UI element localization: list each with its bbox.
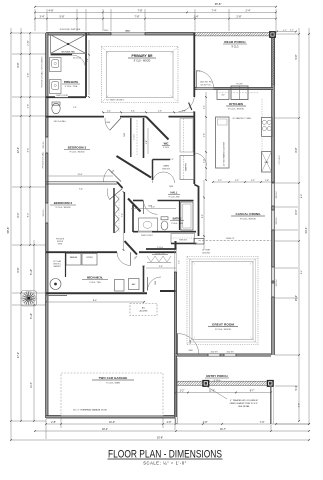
svg-text:PROVIDE 2x6 WALL: PROVIDE 2x6 WALL (42, 152, 45, 169)
diagonal wall hall west (117, 156, 152, 178)
title (108, 449, 223, 466)
bottom dimension lines (10, 417, 310, 441)
svg-text:9' CLG: 9' CLG (163, 147, 169, 149)
svg-text:2'-6": 2'-6" (158, 110, 162, 112)
svg-text:4'-8": 4'-8" (49, 9, 54, 12)
svg-text:KITCHEN: KITCHEN (229, 102, 244, 106)
svg-text:9' CLG: 9' CLG (157, 247, 163, 249)
kitchen label (226, 102, 246, 111)
svg-text:PRIMARY BR: PRIMARY BR (131, 54, 153, 58)
front door (178, 334, 200, 356)
primary br east wall + door (179, 33, 213, 112)
linen closet (153, 160, 171, 181)
svg-text:PROVIDE 2x6 WALL FOR PLUMBING: PROVIDE 2x6 WALL FOR PLUMBING (41, 56, 44, 88)
svg-text:42" HIGH RAISED COUNTER: 42" HIGH RAISED COUNTER (223, 141, 226, 166)
rear porch walls hatched (195, 32, 275, 85)
svg-text:12'-4": 12'-4" (17, 147, 20, 153)
svg-text:END 2x4 WALL: END 2x4 WALL (54, 120, 67, 123)
svg-text:WASHER: WASHER (70, 256, 78, 259)
svg-text:58'-8": 58'-8" (6, 227, 10, 234)
svg-text:PANTRY: PANTRY (185, 163, 188, 171)
svg-text:BEDROOM 3: BEDROOM 3 (68, 146, 87, 150)
svg-text:4'-8": 4'-8" (203, 421, 208, 424)
bedroom 3 label (64, 146, 90, 154)
svg-text:SCALE: ¼" = 1'-0": SCALE: ¼" = 1'-0" (143, 461, 187, 466)
svg-text:3050 SH: 3050 SH (227, 352, 235, 354)
svg-text:24080 OP: 24080 OP (226, 238, 235, 240)
svg-text:SHELVES: SHELVES (179, 240, 188, 242)
svg-text:36'-8": 36'-8" (215, 2, 222, 6)
svg-text:9' CLG: 9' CLG (231, 47, 238, 49)
svg-text:2'-8": 2'-8" (28, 104, 30, 109)
kitchen corridor dims (204, 92, 207, 181)
garage (61, 373, 163, 417)
svg-text:9' CLG - TILE: 9' CLG - TILE (171, 223, 183, 225)
svg-text:7'-4": 7'-4" (212, 9, 217, 12)
svg-text:3068: 3068 (188, 350, 192, 352)
svg-text:8'-0": 8'-0" (202, 214, 204, 218)
svg-text:8'-8": 8'-8" (17, 62, 20, 67)
svg-text:4" TREATED WD COLUMN W/: 4" TREATED WD COLUMN W/ (230, 399, 258, 402)
svg-text:18'-4": 18'-4" (102, 428, 108, 431)
svg-text:2468 POCKET: 2468 POCKET (141, 235, 154, 237)
svg-text:2468 POCKET: 2468 POCKET (56, 95, 69, 97)
svg-text:16'-0": 16'-0" (109, 421, 115, 424)
svg-text:2'-2": 2'-2" (180, 391, 185, 393)
svg-text:3050 SH: 3050 SH (276, 217, 278, 225)
svg-text:2668: 2668 (106, 122, 110, 124)
door size labels (106, 71, 201, 344)
svg-text:9' CLG: 9' CLG (214, 380, 221, 382)
svg-text:11'-4": 11'-4" (78, 174, 83, 176)
svg-text:7'-4": 7'-4" (79, 189, 83, 191)
svg-text:GREAT ROOM: GREAT ROOM (212, 323, 234, 327)
svg-text:CABINET: CABINET (53, 265, 62, 268)
svg-text:PRIM BATH: PRIM BATH (64, 80, 78, 84)
svg-text:2'-2": 2'-2" (251, 180, 255, 182)
svg-text:NON FIXED TEMP GRB: NON FIXED TEMP GRB (60, 29, 81, 31)
diagonal wall 2 (128, 199, 141, 212)
svg-text:4'-4": 4'-4" (204, 105, 206, 109)
svg-text:3'-0": 3'-0" (179, 260, 181, 264)
svg-text:3'-4": 3'-4" (40, 16, 45, 19)
svg-text:8'-0": 8'-0" (295, 209, 298, 214)
svg-text:8'-8": 8'-8" (295, 147, 298, 152)
laundry closet wall (65, 252, 67, 277)
laundry notes (53, 239, 65, 269)
svg-text:2'-0" HELD: 2'-0" HELD (279, 155, 281, 165)
svg-text:20'-8": 20'-8" (157, 437, 163, 440)
svg-text:9' CLG - WOOD: 9' CLG - WOOD (134, 61, 151, 63)
right dimension lines (275, 28, 310, 425)
svg-text:9' CLG - WOOD: 9' CLG - WOOD (56, 207, 71, 209)
kitchen dim line (212, 180, 274, 183)
svg-text:9' CLG - WD: 9' CLG - WD (169, 196, 180, 198)
svg-text:BATH 2: BATH 2 (173, 218, 182, 221)
svg-text:2'-8": 2'-8" (194, 243, 198, 245)
hall east wall (193, 112, 195, 185)
svg-text:SHOWER PAN: SHOWER PAN (61, 50, 75, 53)
svg-text:DRYER: DRYER (87, 257, 94, 259)
svg-text:2'-4": 2'-4" (107, 110, 111, 112)
svg-text:5'-10": 5'-10" (30, 269, 33, 275)
svg-text:9' CLG: 9' CLG (134, 134, 136, 140)
svg-text:7'-0": 7'-0" (121, 213, 123, 217)
svg-text:17'-4": 17'-4" (17, 352, 20, 358)
fan symbol outside left (21, 291, 37, 307)
svg-text:2'-8": 2'-8" (51, 421, 56, 424)
svg-text:1'-4": 1'-4" (194, 16, 199, 19)
range / cooktop at right wall (262, 118, 273, 173)
svg-text:3'-4": 3'-4" (131, 110, 135, 112)
svg-text:9' CLG - WOOD: 9' CLG - WOOD (240, 219, 256, 221)
exterior walls (46, 33, 275, 419)
svg-text:6'-4": 6'-4" (301, 270, 303, 274)
svg-text:3068: 3068 (190, 340, 192, 344)
svg-text:SHELVES: SHELVES (162, 168, 171, 170)
svg-text:12' TRAY CEILING: 12' TRAY CEILING (106, 99, 124, 102)
svg-text:7'-4": 7'-4" (87, 58, 89, 62)
bedroom2/3 divider wall (46, 169, 123, 209)
svg-text:2'-8": 2'-8" (182, 110, 186, 112)
svg-text:2868: 2868 (155, 281, 157, 285)
svg-text:9' CLG - GWB: 9' CLG - GWB (106, 383, 120, 385)
svg-text:6'-8": 6'-8" (17, 267, 20, 272)
pantry (180, 153, 207, 180)
svg-text:SEE DETAIL: SEE DETAIL (238, 405, 250, 408)
svg-text:2'-2": 2'-2" (218, 180, 222, 182)
island counter (216, 117, 252, 168)
svg-text:2664 RS. PB.: 2664 RS. PB. (200, 82, 213, 84)
svg-text:9' CLG - TILE: 9' CLG - TILE (89, 282, 101, 284)
svg-text:2'-4": 2'-4" (246, 9, 251, 12)
svg-text:3050 SH: 3050 SH (276, 191, 278, 199)
svg-text:16' x 7' OVERHEAD GARAGE DOOR: 16' x 7' OVERHEAD GARAGE DOOR (73, 409, 107, 412)
svg-text:8'-0": 8'-0" (301, 194, 303, 198)
svg-text:9' CLG - WOOD: 9' CLG - WOOD (70, 152, 85, 154)
svg-text:MECHANICAL: MECHANICAL (87, 277, 104, 280)
prim bath walls (46, 33, 86, 97)
svg-text:3050 SH: 3050 SH (43, 141, 45, 149)
svg-text:REAR PORCH: REAR PORCH (224, 40, 245, 44)
svg-text:7'-8": 7'-8" (135, 16, 140, 19)
top dimension lines (34, 2, 277, 31)
svg-text:8'-0": 8'-0" (28, 213, 30, 218)
AC access dashed box (130, 304, 157, 316)
svg-text:CEILING: CEILING (202, 252, 210, 254)
svg-text:2'-2": 2'-2" (235, 180, 239, 182)
svg-text:9'-8": 9'-8" (295, 54, 298, 59)
bedroom3 closet (131, 118, 144, 158)
kitchen back wall + appliances (195, 71, 273, 100)
svg-text:14'-4": 14'-4" (30, 382, 33, 388)
svg-text:2'-4": 2'-4" (170, 159, 174, 161)
interior dim 8-4 (45, 300, 145, 303)
casual dining west wall (194, 185, 198, 187)
svg-text:8'-4": 8'-4" (93, 300, 98, 302)
primary bedroom tray ceiling (102, 31, 179, 103)
svg-text:9' CLG - WOOD: 9' CLG - WOOD (228, 109, 244, 111)
svg-text:7'-0": 7'-0" (260, 421, 265, 424)
window labels (43, 29, 278, 354)
svg-text:CASUAL DINING: CASUAL DINING (235, 212, 261, 216)
mud room (146, 247, 176, 291)
left dimension lines (6, 28, 77, 440)
svg-text:9' CLG - WOOD: 9' CLG - WOOD (215, 329, 231, 331)
hall label + doors (153, 172, 181, 198)
svg-text:5'-4": 5'-4" (159, 266, 163, 268)
bedroom2 closet + bifold (114, 188, 125, 233)
bath2 (133, 201, 204, 245)
svg-text:12' TRAY: 12' TRAY (202, 249, 211, 252)
interior dim columns (46, 33, 205, 268)
svg-text:2668: 2668 (169, 186, 173, 188)
mech bottom wall / garage top (46, 291, 176, 296)
wic (162, 119, 193, 153)
casual dining (199, 212, 272, 240)
svg-text:45° PAINTED 2" WALL: 45° PAINTED 2" WALL (232, 117, 251, 120)
svg-text:7'-8": 7'-8" (138, 9, 143, 12)
svg-text:WIC: WIC (164, 143, 169, 146)
svg-text:FLUSH: FLUSH (237, 84, 244, 86)
svg-text:HALL: HALL (171, 191, 178, 195)
svg-text:2'-8": 2'-8" (73, 107, 77, 109)
shower (51, 35, 86, 69)
svg-text:9'-4": 9'-4" (28, 148, 30, 153)
svg-text:3050 SH: 3050 SH (43, 209, 45, 217)
svg-text:5'-10": 5'-10" (30, 313, 33, 319)
top-right porch corner marks (276, 30, 297, 33)
svg-text:2'-4": 2'-4" (197, 71, 201, 73)
svg-text:2'-8": 2'-8" (237, 16, 242, 19)
mechanical room (46, 252, 176, 293)
svg-text:3'-2": 3'-2" (290, 30, 294, 32)
svg-text:5'-4": 5'-4" (146, 140, 148, 144)
svg-text:ACCESS: ACCESS (140, 310, 149, 313)
diag wall 3 (125, 241, 138, 255)
svg-text:LINEN: LINEN (163, 166, 169, 168)
svg-text:3050 SH: 3050 SH (276, 279, 278, 287)
svg-text:ENTRY PORCH: ENTRY PORCH (206, 374, 227, 378)
svg-text:1'-8": 1'-8" (265, 180, 269, 182)
svg-text:2668: 2668 (124, 133, 126, 137)
svg-text:8'-0": 8'-0" (17, 212, 20, 217)
foyer opening jambs (174, 249, 180, 272)
svg-text:9'-7": 9'-7" (250, 391, 255, 393)
svg-text:5'-0": 5'-0" (151, 207, 155, 209)
bedroom3 top wall (46, 110, 195, 130)
svg-text:5'-8": 5'-8" (28, 73, 30, 78)
svg-text:W/ 2B POC.: W/ 2B POC. (201, 85, 212, 87)
entry porch (175, 358, 274, 424)
svg-text:BEDROOM 2: BEDROOM 2 (54, 201, 73, 205)
svg-text:53'-4": 53'-4" (304, 227, 308, 234)
svg-text:FIBER CEMENT TRIM TO 8'-0".: FIBER CEMENT TRIM TO 8'-0". (230, 403, 259, 405)
svg-text:2'-10": 2'-10" (28, 40, 30, 46)
svg-text:9' CLG - TILE: 9' CLG - TILE (65, 86, 78, 88)
svg-text:3050 SH: 3050 SH (211, 352, 219, 354)
svg-text:2'-8": 2'-8" (167, 421, 172, 424)
svg-text:4'-8": 4'-8" (204, 133, 206, 137)
svg-text:2'-0": 2'-0" (204, 159, 206, 163)
water closet + toilet (52, 95, 69, 114)
great room tray ceiling (187, 249, 258, 345)
vanities and sinks (50, 58, 81, 94)
right wall counter edge kitchen (261, 99, 263, 152)
svg-text:9'-8": 9'-8" (299, 403, 301, 408)
svg-text:TWO CAR GARAGE: TWO CAR GARAGE (99, 376, 128, 380)
misc annotations (194, 30, 287, 245)
diagonal wall bedroom3/hall (146, 117, 169, 140)
svg-text:16'-7": 16'-7" (220, 428, 226, 431)
svg-text:5'-8": 5'-8" (60, 16, 65, 19)
